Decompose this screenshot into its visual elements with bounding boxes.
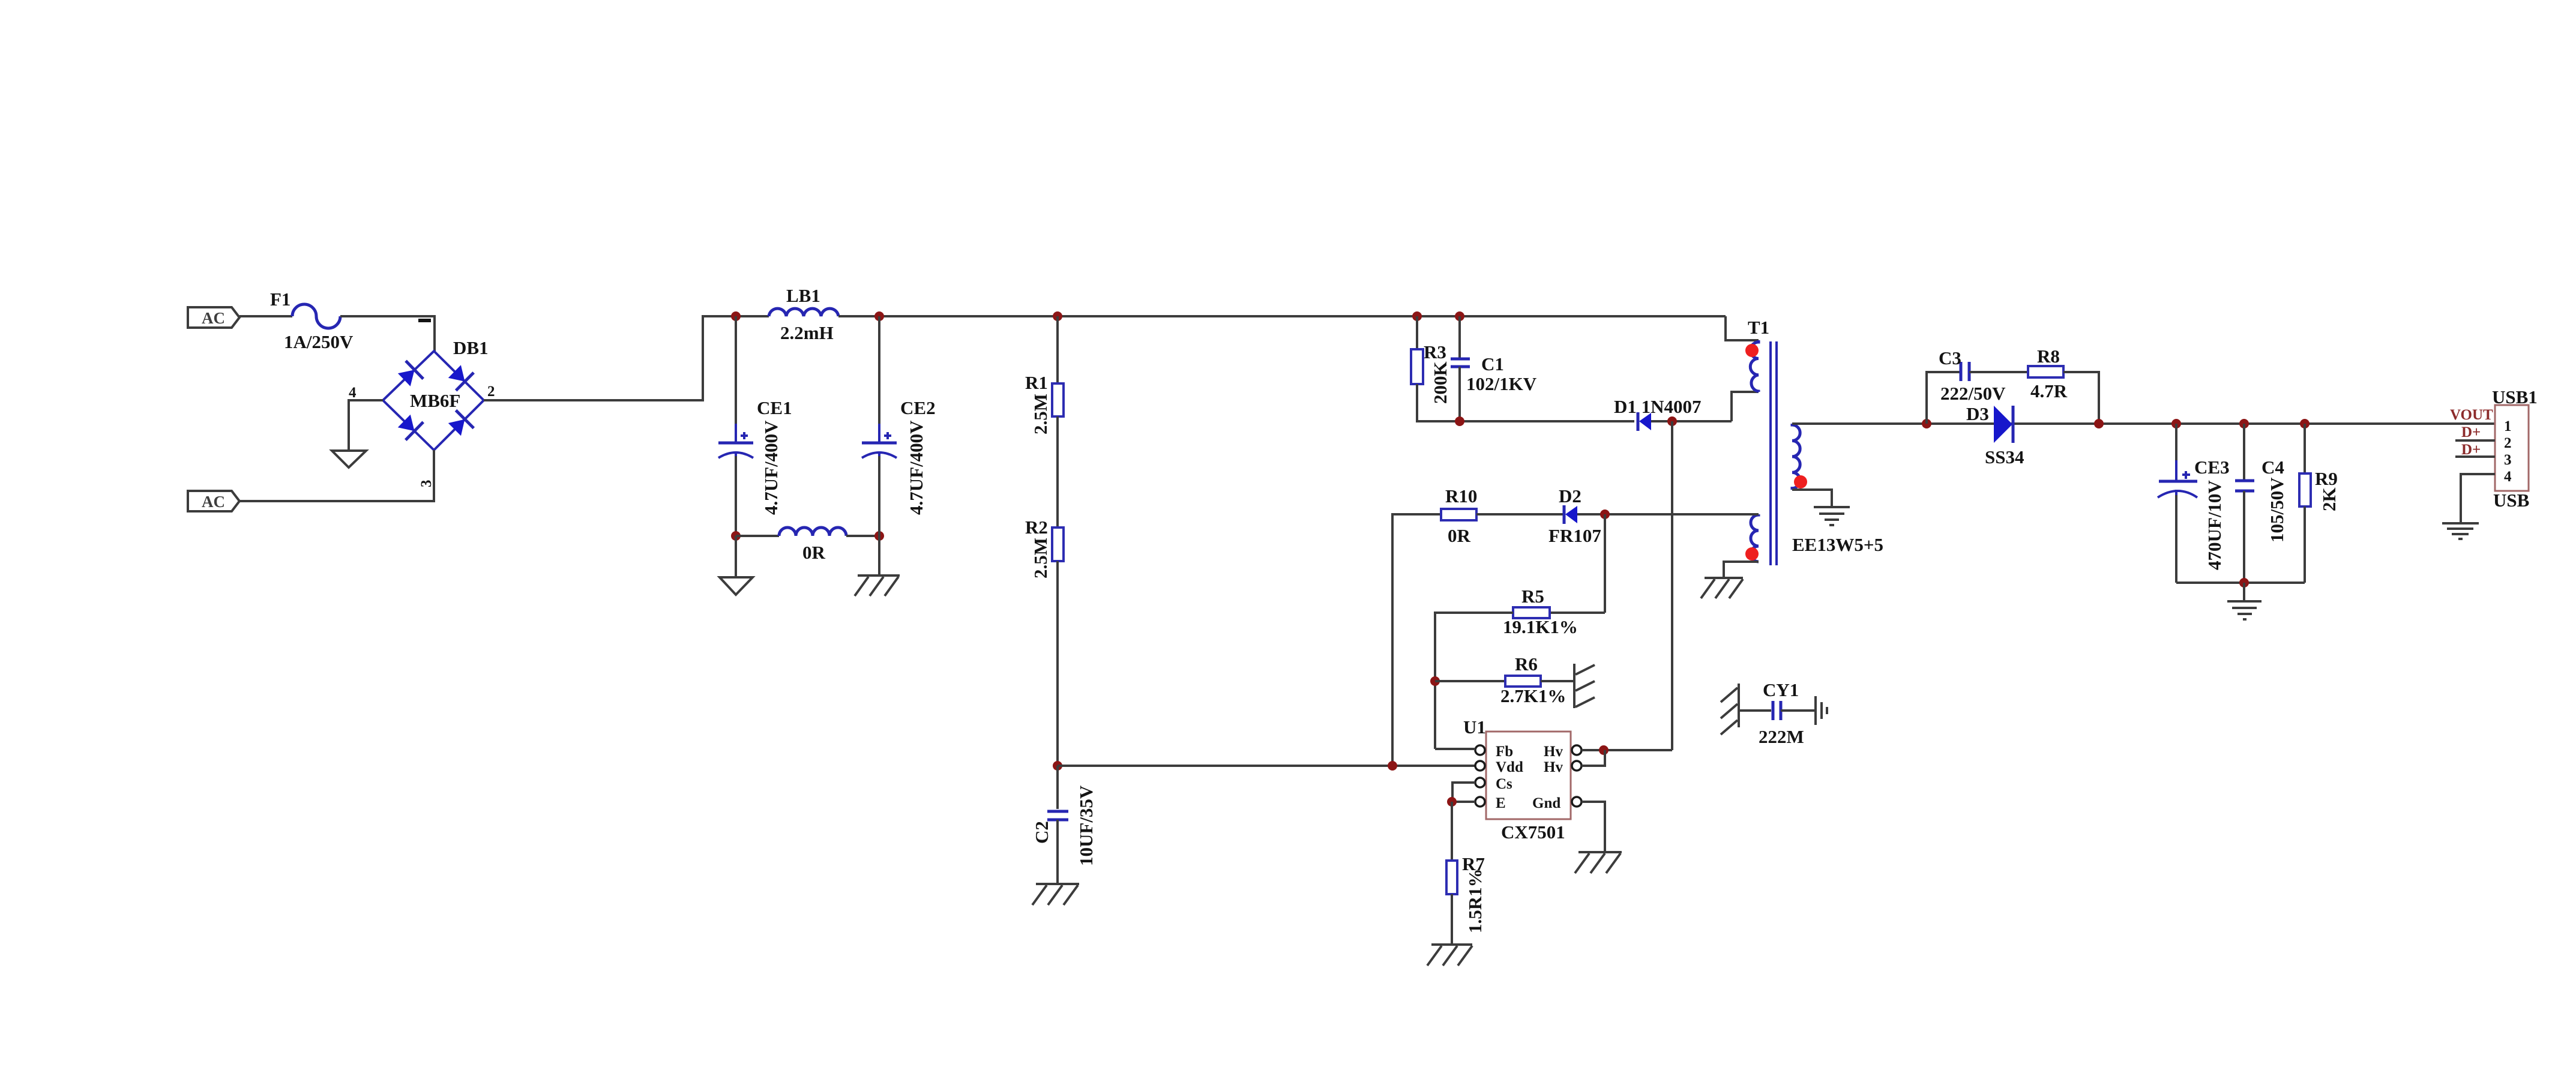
wire fuse to bridge top [340,316,435,351]
wire output ground rail [2176,582,2305,584]
svg-text:R2: R2 [1025,517,1048,538]
node junction D1/HV riser [1667,416,1677,426]
svg-text:105/50V: 105/50V [2266,477,2287,542]
ground (earth) USB [2442,523,2479,539]
svg-text:19.1K1%: 19.1K1% [1503,616,1578,637]
wire C1 lower lead [1458,367,1461,421]
node junction C1/snubber rail [1455,416,1464,426]
ground (earth) secondary [1814,507,1850,525]
node junction Vdd/R10 drop [1388,761,1397,771]
IC U1 CX7501 body [1486,732,1571,819]
wire Gnd lead [1581,802,1605,852]
wire R2 to Vdd node [1056,561,1059,766]
wire R7 to ground [1451,894,1453,945]
diode DB1 top-left [398,361,423,386]
node junction Hv1/Hv2 [1599,745,1608,755]
transformer T1 primary winding [1750,340,1759,392]
wire CE1 upper lead [735,316,737,442]
wire C3 to R8 [1969,371,2028,373]
ground (earth rotated) right of CY1 [1816,696,1827,725]
wire Hv1 to HV riser [1581,749,1672,751]
polarity dot aux [1745,547,1759,561]
resistor R9 [2299,473,2311,506]
svg-text:U1: U1 [1463,717,1486,738]
svg-text:200K: 200K [1430,361,1451,404]
wire CY1 right lead [1781,709,1814,712]
wire R5 drop [1604,514,1606,613]
ground (signal gnd triangle) below CE1 [720,577,753,595]
svg-text:R3: R3 [1424,341,1446,362]
diode D2 [1564,505,1577,524]
wire step to primary bottom [1732,392,1759,421]
wire aux bottom to ground [1724,562,1759,578]
ground (chassis) below R7 [1427,945,1472,966]
diode D3 [1994,406,2013,443]
wire HV riser [1671,421,1673,750]
wire CE2 lower lead [878,456,880,576]
resistor R8 [2028,366,2063,377]
wire C4 lower lead [2243,491,2245,583]
wire R6 left lead [1435,680,1505,682]
wire D+ pin2 stub [2455,439,2495,442]
svg-text:Fb: Fb [1496,744,1513,760]
ground (signal gnd triangle) at bridge pin4 [332,451,366,467]
wire C3 branch riser left [1927,372,1960,424]
wire R10 left drop to Vdd bus [1392,514,1441,766]
svg-text:CE1: CE1 [757,397,792,418]
node junction R8 right [2094,419,2104,428]
wire R9 lower lead [2304,506,2306,583]
ground (chassis) at U1 Gnd [1575,852,1622,873]
resistor R5 [1513,607,1550,618]
svg-text:D2: D2 [1559,485,1581,506]
svg-text:D+: D+ [2461,424,2481,440]
svg-text:Gnd: Gnd [1532,795,1560,811]
wire AC1 to fuse [239,315,292,317]
svg-text:CY1: CY1 [1763,679,1799,700]
wire bridge pin4 to ground [349,400,383,451]
svg-text:3: 3 [418,480,435,488]
port AC1 (live input connector) [188,307,239,328]
diode DB1 bottom-left [398,415,423,440]
connector USB1 body [2495,405,2529,491]
svg-text:EE13W5+5: EE13W5+5 [1792,534,1883,555]
capacitor C2 [1047,811,1068,820]
wire bridge pin3 to AC2 [239,450,434,501]
wire Fb lead [1435,748,1475,750]
svg-text:10UF/35V: 10UF/35V [1076,785,1097,866]
svg-text:2: 2 [2504,435,2512,451]
wire Vdd bus to U1 [1058,765,1475,767]
wire R3 lower lead to snubber rail [1417,384,1634,421]
transformer T1 core [1771,341,1777,565]
pin E circle [1475,797,1485,807]
svg-text:1: 1 [2504,418,2512,434]
wire C1 upper lead [1458,316,1461,358]
wire R3 upper lead [1416,316,1418,349]
wire output bus [1792,422,2495,425]
pin Vdd circle [1475,761,1485,771]
node junction E/Cs/R7 [1447,797,1457,807]
ground (chassis rotated) left of CY1 [1721,684,1739,735]
svg-text:CE3: CE3 [2194,457,2230,478]
wire bridge pin2 to top bus [484,316,769,400]
wire Cs lead [1452,783,1475,802]
svg-text:2K: 2K [2319,487,2340,511]
svg-text:2.7K1%: 2.7K1% [1500,685,1566,706]
svg-text:3: 3 [2504,452,2512,468]
polarity dot secondary [1794,475,1807,488]
transformer T1 aux winding [1751,514,1759,562]
node junction R6/Fb riser [1430,676,1440,686]
svg-text:DB1: DB1 [453,337,489,358]
svg-text:Hv: Hv [1544,744,1563,760]
svg-text:1A/250V: 1A/250V [284,331,354,352]
svg-text:4.7R: 4.7R [2030,380,2068,401]
node junction CE1/0R [731,531,741,541]
transformer T1 secondary winding [1792,424,1800,490]
svg-text:D+: D+ [2461,442,2481,458]
svg-text:4: 4 [349,385,357,401]
diode DB1 bottom-right [448,410,474,436]
svg-text:T1: T1 [1748,317,1769,338]
svg-text:FR107: FR107 [1548,525,1601,546]
svg-text:E: E [1496,795,1506,811]
resistor R1 [1052,383,1064,416]
node junction CE1/top bus [731,311,741,321]
wire E lead [1452,801,1475,803]
minus polarity mark [418,319,431,322]
ground (earth) output [2227,601,2262,619]
svg-text:222M: 222M [1759,726,1804,747]
wire 0R to CE2 bottom [846,535,879,537]
pin Hv2 circle [1572,761,1581,771]
svg-text:F1: F1 [270,289,290,310]
capacitor CE1 [718,424,753,477]
ground (chassis rotated) at R6 [1574,664,1595,708]
wire CE3 lower lead [2175,495,2177,583]
port AC2 (neutral input connector) [188,491,239,511]
svg-text:Hv: Hv [1544,759,1563,775]
svg-text:4.7UF/400V: 4.7UF/400V [760,420,781,515]
bridge rectifier DB1 outline [383,351,484,450]
svg-text:C2: C2 [1031,821,1052,844]
ground (chassis) below CE2 [855,576,900,596]
svg-text:D3: D3 [1966,403,1989,424]
fuse F1 [292,304,340,328]
capacitor CE3 [2158,460,2197,517]
svg-text:D1 1N4007: D1 1N4007 [1614,396,1702,417]
svg-text:CX7501: CX7501 [1501,822,1565,843]
ground (chassis) aux winding [1701,578,1743,598]
node junction C2/Vdd bus [1053,761,1062,771]
node junction R1 top bus [1053,311,1062,321]
svg-text:R1: R1 [1025,372,1048,393]
wire E to R7 [1451,802,1453,861]
wire C2 lower lead [1056,820,1059,884]
svg-text:R5: R5 [1521,586,1544,607]
wire D2 to aux winding [1577,513,1759,515]
resistor R7 [1446,861,1457,894]
node junction C1 top bus [1455,311,1464,321]
svg-text:2.2mH: 2.2mH [780,322,834,343]
node junction CE2/top bus [874,311,884,321]
wire secondary bottom to ground [1792,490,1832,506]
wire R5 right lead [1550,612,1605,614]
svg-text:2.5M: 2.5M [1030,538,1051,579]
node junction ground rail [2239,578,2249,588]
wire R9 upper lead [2304,424,2306,473]
node junction R3 top bus [1412,311,1422,321]
svg-text:2: 2 [487,383,495,400]
svg-text:1.5R1%: 1.5R1% [1464,868,1485,933]
inductor 0R [779,527,846,536]
svg-text:USB1: USB1 [2492,386,2538,407]
svg-text:C1: C1 [1481,353,1504,374]
svg-text:USB: USB [2493,490,2529,511]
svg-text:R9: R9 [2315,468,2338,489]
node junction R9 top [2300,419,2310,428]
capacitor CE2 [862,424,897,477]
capacitor C1 [1451,359,1470,367]
wire CE1 lower lead [735,456,737,536]
svg-text:0R: 0R [1448,525,1471,546]
node junction C3/D3 left [1922,419,1931,428]
wire R6 right lead [1541,680,1573,682]
capacitor C3 [1961,362,1969,381]
svg-text:CE2: CE2 [900,397,936,418]
svg-text:2.5M: 2.5M [1030,394,1051,434]
svg-text:R8: R8 [2037,346,2060,367]
diode D1 [1638,412,1651,431]
wire to output earth [2243,583,2245,601]
svg-text:4: 4 [2504,469,2512,485]
inductor LB1 [769,308,838,316]
wire C4 upper lead [2243,424,2245,480]
resistor R2 [1052,527,1064,561]
svg-text:470UF/10V: 470UF/10V [2204,480,2225,570]
pin Cs circle [1475,778,1485,787]
wire R8 right riser [2063,372,2099,424]
svg-text:Cs: Cs [1496,776,1512,792]
svg-text:VOUT: VOUT [2450,407,2493,423]
wire C2 upper lead [1056,766,1059,809]
wire CY1 left lead [1739,709,1771,712]
ground (chassis) below C2 [1032,884,1079,905]
wire CE1 to 0R [736,535,779,537]
svg-text:C3: C3 [1939,347,1961,368]
wire D1 cathode-side rail [1651,420,1732,422]
pin Fb circle [1475,745,1485,755]
diode DB1 top-right [448,365,474,390]
node junction aux rail/R5 drop [1600,509,1610,519]
node junction CE2 bottom [874,531,884,541]
node junction CE3 [2171,419,2181,428]
wire R1 to R2 [1056,416,1059,527]
svg-text:C4: C4 [2262,457,2284,478]
svg-text:SS34: SS34 [1985,446,2024,467]
capacitor C4 [2235,481,2254,491]
wire D+ pin3 stub [2455,455,2495,458]
svg-text:AC: AC [202,493,225,511]
wire Hv2 lead [1581,750,1605,766]
wire R10 to D2 [1476,513,1564,515]
wire top bus drop to primary top [1726,316,1759,340]
pin Hv1 circle [1572,745,1581,755]
wire CE2 upper lead [878,316,880,442]
polarity dot primary [1745,344,1759,357]
wire CE3 upper lead [2175,424,2177,480]
svg-text:R10: R10 [1445,485,1477,506]
capacitor CY1 [1773,701,1781,720]
wire LB1 to R3 area (top bus) [838,315,1726,317]
svg-text:Vdd: Vdd [1496,759,1523,775]
resistor R3 [1411,349,1423,384]
wire R1 upper lead [1056,316,1059,383]
svg-text:AC: AC [202,309,225,327]
svg-text:4.7UF/400V: 4.7UF/400V [906,420,927,515]
svg-text:222/50V: 222/50V [1940,383,2006,404]
svg-text:LB1: LB1 [786,285,820,306]
svg-text:102/1KV: 102/1KV [1466,373,1537,394]
svg-text:0R: 0R [802,542,826,563]
wire pin4 to earth [2461,474,2495,523]
wire R5 left lead down to Fb [1435,613,1513,749]
wire CE1 bottom to ground [735,536,737,577]
svg-text:R6: R6 [1515,654,1538,675]
svg-text:MB6F: MB6F [410,390,460,411]
resistor R6 [1505,676,1541,687]
resistor R10 [1441,509,1476,520]
node junction C4 top [2239,419,2249,428]
pin Gnd circle [1572,797,1581,807]
